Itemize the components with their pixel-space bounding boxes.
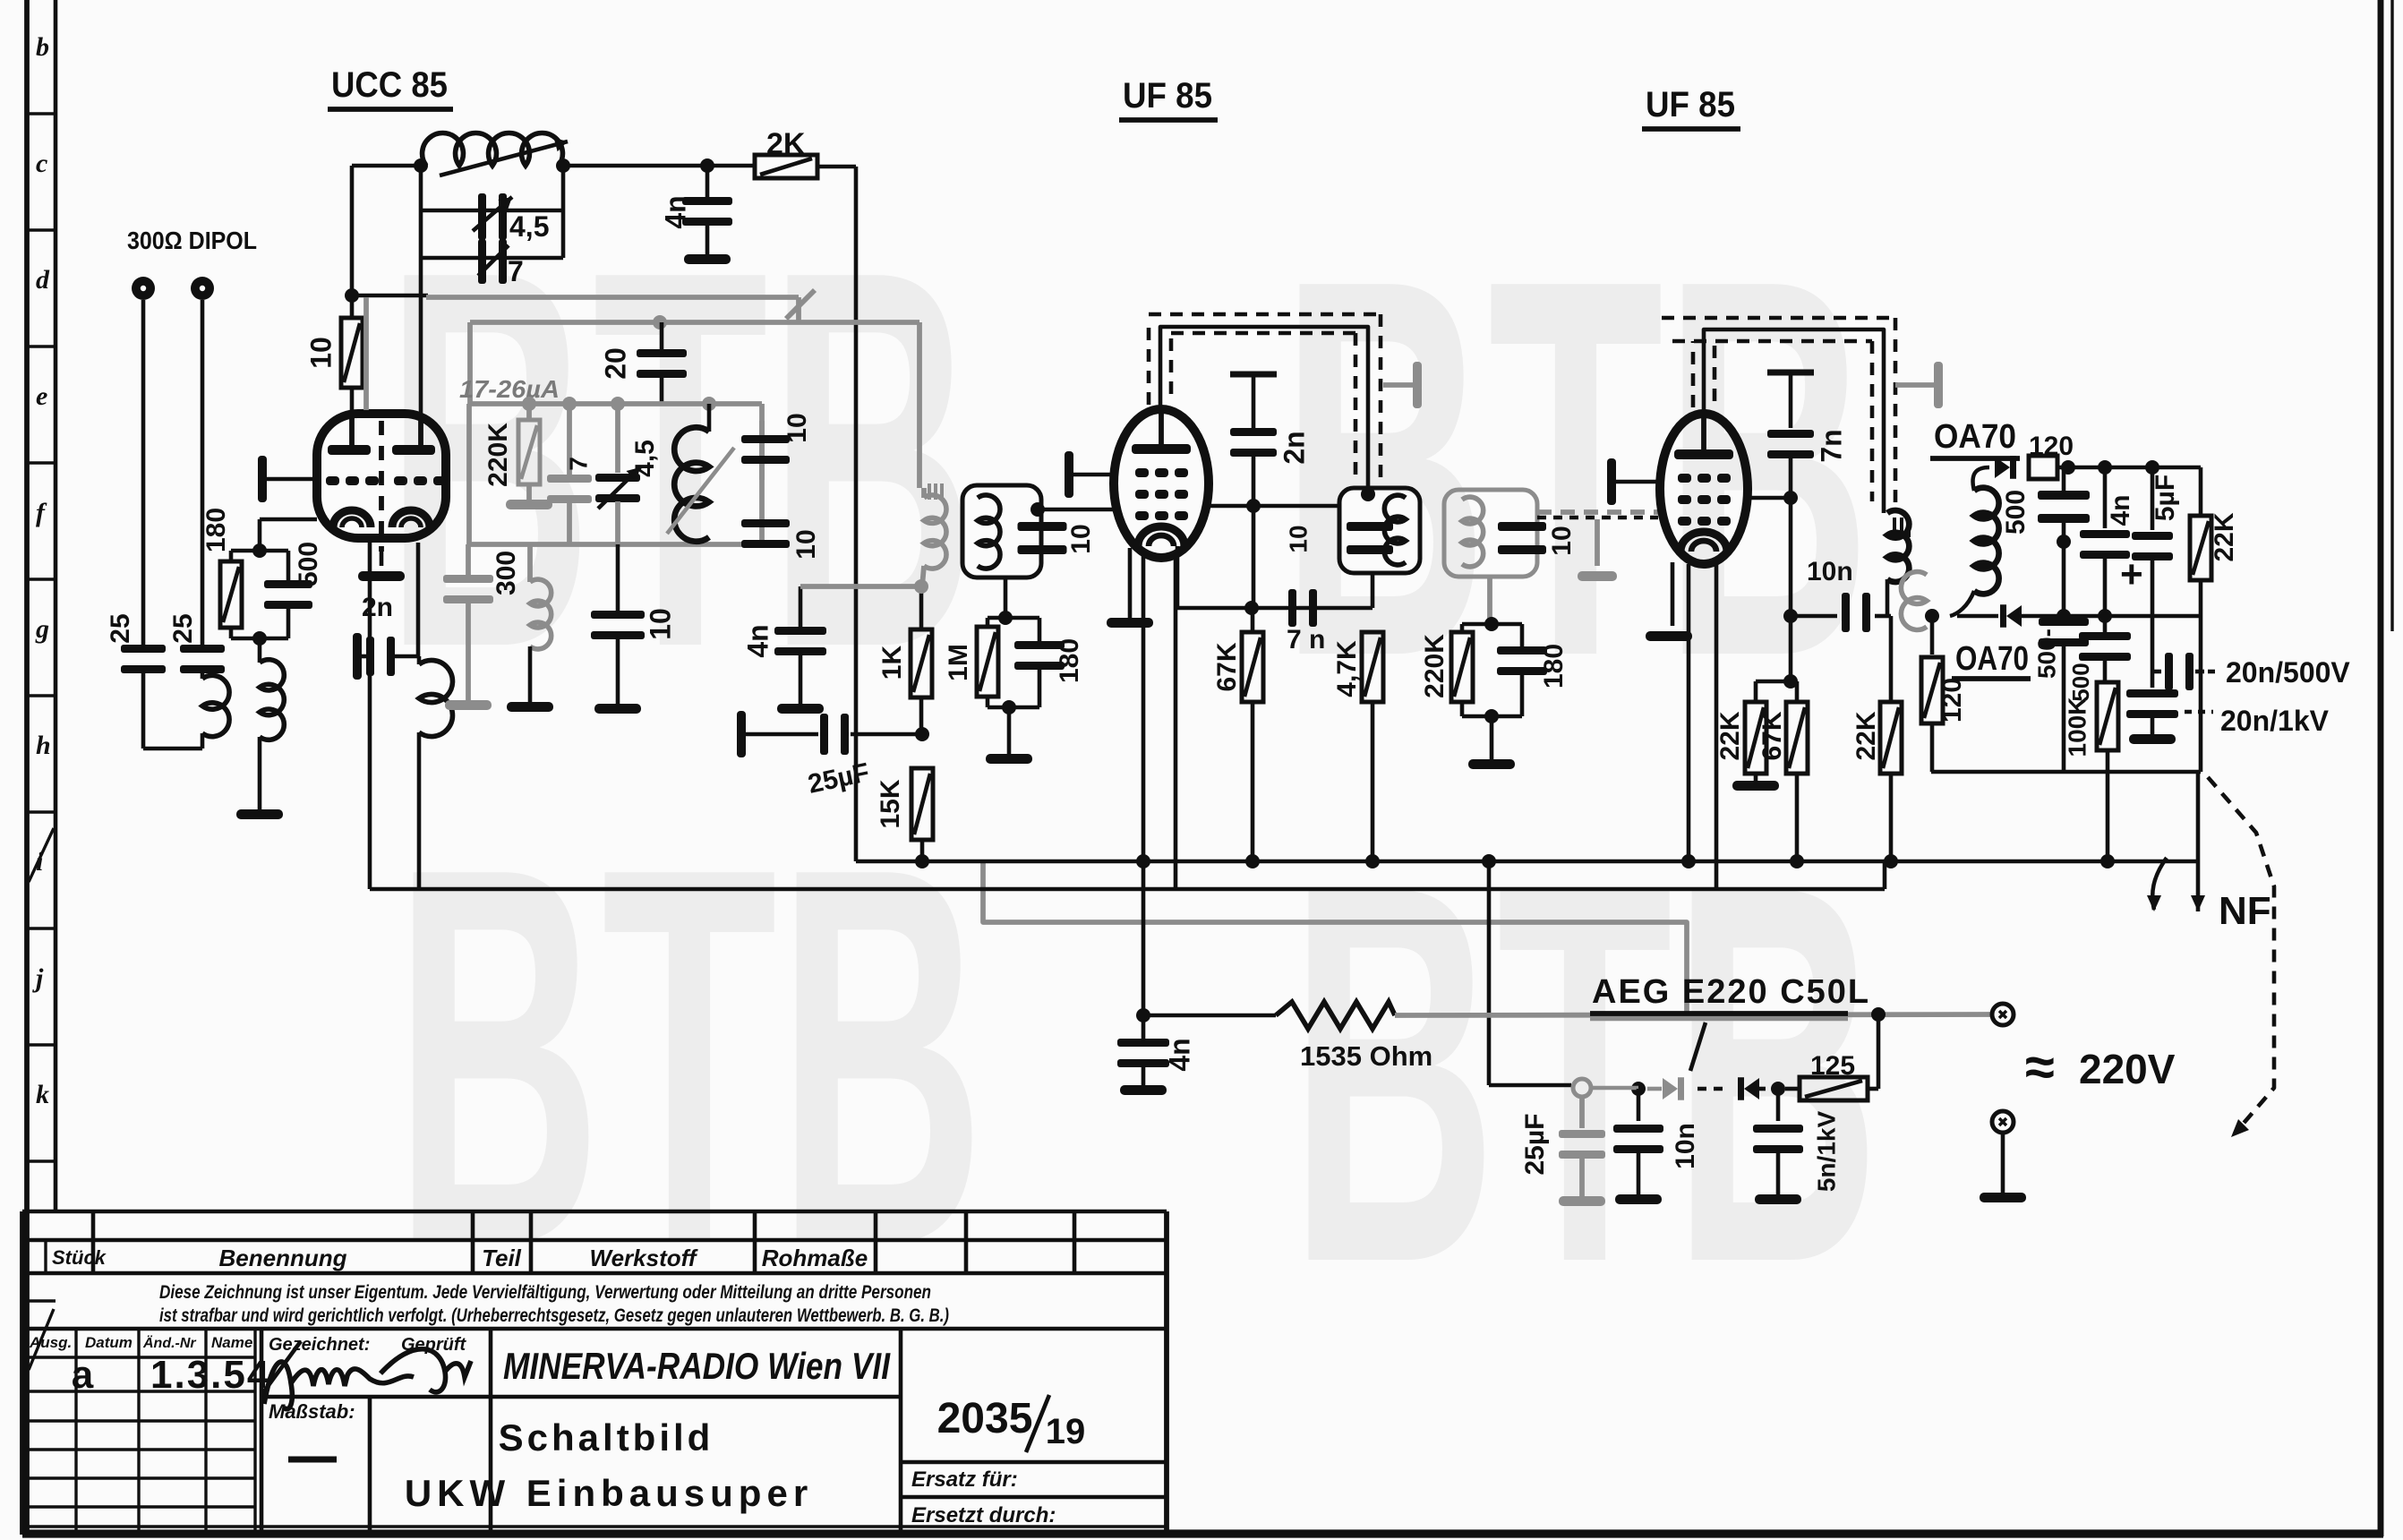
- svg-text:180: 180: [1539, 644, 1569, 689]
- svg-text:4n: 4n: [659, 195, 691, 228]
- svg-text:c: c: [36, 149, 47, 178]
- svg-text:1K: 1K: [877, 645, 907, 680]
- svg-text:180: 180: [1055, 638, 1084, 683]
- svg-text:OA70: OA70: [1955, 640, 2029, 678]
- svg-text:Teil: Teil: [482, 1245, 522, 1271]
- svg-text:180: 180: [201, 508, 231, 552]
- svg-text:Rohmaße: Rohmaße: [762, 1245, 868, 1271]
- svg-text:Benennung: Benennung: [219, 1245, 347, 1271]
- svg-text:220K: 220K: [1420, 634, 1449, 698]
- svg-text:b: b: [36, 32, 49, 62]
- svg-text:22K: 22K: [1715, 711, 1745, 760]
- svg-text:19: 19: [1046, 1412, 1086, 1451]
- svg-text:17-26µA: 17-26µA: [459, 375, 560, 403]
- svg-text:4n: 4n: [2106, 494, 2135, 526]
- svg-text:25: 25: [106, 613, 135, 643]
- svg-text:500: 500: [2001, 490, 2031, 535]
- svg-text:10: 10: [1284, 525, 1312, 552]
- svg-text:10: 10: [782, 413, 812, 442]
- svg-text:1.3.54: 1.3.54: [150, 1353, 270, 1397]
- svg-text:5n/1kV: 5n/1kV: [1812, 1111, 1840, 1193]
- svg-text:220K: 220K: [483, 423, 513, 487]
- svg-text:4,5: 4,5: [630, 440, 660, 477]
- svg-text:15K: 15K: [876, 779, 905, 828]
- svg-text:20: 20: [599, 347, 631, 380]
- svg-text:22K: 22K: [2210, 512, 2239, 561]
- svg-text:h: h: [36, 731, 51, 760]
- svg-text:UCC 85: UCC 85: [331, 65, 448, 105]
- svg-text:Stück: Stück: [52, 1246, 107, 1269]
- svg-text:ist strafbar und wird gerichtl: ist strafbar und wird gerichtlich verfol…: [159, 1305, 949, 1326]
- svg-text:UF 85: UF 85: [1646, 85, 1735, 124]
- svg-text:Diese Zeichnung ist unser Eige: Diese Zeichnung ist unser Eigentum. Jede…: [159, 1282, 931, 1303]
- svg-text:500: 500: [2067, 663, 2094, 701]
- svg-text:7n: 7n: [1815, 429, 1847, 462]
- svg-text:Schaltbild: Schaltbild: [499, 1416, 714, 1459]
- svg-text:4n: 4n: [741, 624, 774, 657]
- svg-text:Ersetzt durch:: Ersetzt durch:: [911, 1503, 1056, 1527]
- svg-text:500: 500: [294, 542, 323, 586]
- svg-text:2035: 2035: [937, 1395, 1033, 1442]
- svg-text:Ersatz für:: Ersatz für:: [911, 1467, 1018, 1492]
- svg-text:Maßstab:: Maßstab:: [269, 1400, 355, 1423]
- svg-text:4,5: 4,5: [509, 210, 549, 243]
- svg-text:1M: 1M: [944, 644, 973, 681]
- svg-text:≈: ≈: [2025, 1037, 2055, 1097]
- svg-text:10: 10: [304, 337, 337, 369]
- svg-text:67K: 67K: [1212, 642, 1242, 691]
- svg-text:NF: NF: [2219, 889, 2271, 933]
- svg-text:10n: 10n: [1807, 557, 1853, 586]
- svg-text:4,7K: 4,7K: [1332, 640, 1362, 697]
- svg-text:25: 25: [168, 613, 198, 643]
- svg-text:10: 10: [644, 608, 676, 640]
- svg-text:220V: 220V: [2079, 1046, 2176, 1092]
- svg-text:25µF: 25µF: [1520, 1114, 1550, 1176]
- svg-text:1535 Ohm: 1535 Ohm: [1300, 1040, 1432, 1072]
- svg-text:UKW Einbausuper: UKW Einbausuper: [405, 1472, 813, 1514]
- svg-text:Name: Name: [211, 1334, 252, 1351]
- svg-text:a: a: [72, 1353, 94, 1397]
- svg-text:10: 10: [1066, 524, 1096, 553]
- svg-text:125: 125: [1810, 1051, 1855, 1081]
- svg-text:5µF: 5µF: [2151, 475, 2180, 521]
- svg-text:Datum: Datum: [85, 1334, 133, 1351]
- svg-text:Gezeichnet:: Gezeichnet:: [269, 1335, 370, 1355]
- svg-text:2n: 2n: [362, 593, 393, 622]
- svg-text:k: k: [36, 1080, 49, 1109]
- svg-text:20n/1kV: 20n/1kV: [2220, 705, 2330, 737]
- svg-text:7: 7: [564, 457, 592, 471]
- svg-text:AEG E220 C50L: AEG E220 C50L: [1592, 973, 1870, 1011]
- svg-text:300Ω DIPOL: 300Ω DIPOL: [127, 227, 257, 254]
- svg-text:MINERVA-RADIO Wien VII: MINERVA-RADIO Wien VII: [503, 1345, 891, 1387]
- svg-text:120: 120: [1937, 678, 1967, 723]
- svg-text:500-: 500-: [2032, 629, 2060, 679]
- svg-text:10: 10: [1547, 526, 1577, 555]
- svg-text:Werkstoff: Werkstoff: [590, 1245, 698, 1271]
- svg-text:10n: 10n: [1671, 1123, 1700, 1169]
- svg-text:OA70: OA70: [1934, 418, 2016, 456]
- svg-text:Änd.-Nr: Änd.-Nr: [142, 1335, 196, 1351]
- svg-text:10: 10: [791, 529, 821, 559]
- svg-text:4n: 4n: [1163, 1038, 1195, 1071]
- svg-text:UF 85: UF 85: [1123, 76, 1212, 115]
- svg-text:2n: 2n: [1278, 431, 1310, 464]
- svg-text:e: e: [36, 381, 47, 411]
- svg-text:22K: 22K: [1851, 711, 1881, 760]
- svg-text:300: 300: [492, 551, 521, 595]
- svg-text:7 n: 7 n: [1287, 625, 1325, 654]
- svg-text:g: g: [35, 614, 49, 644]
- svg-text:20n/500V: 20n/500V: [2226, 656, 2350, 689]
- svg-text:100K: 100K: [2063, 697, 2091, 757]
- svg-text:Ausg.: Ausg.: [29, 1334, 72, 1351]
- svg-text:7: 7: [508, 255, 524, 287]
- svg-text:67K: 67K: [1757, 711, 1787, 760]
- svg-text:d: d: [36, 265, 50, 295]
